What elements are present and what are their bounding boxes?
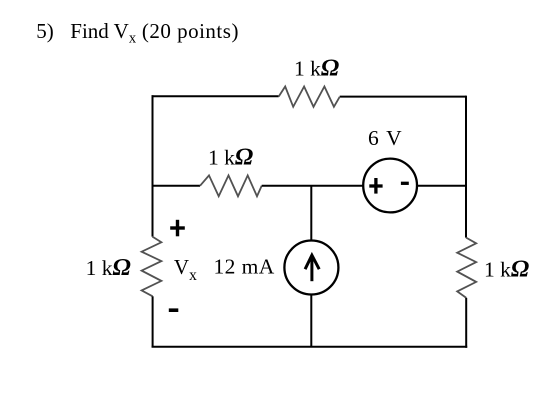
wire: middle horizontal, middle resistor to 6V source [262,185,363,187]
wire: middle vertical from middle node down to current source [310,186,312,241]
svg-text:Find Vx (20 points): Find Vx (20 points) [70,19,239,47]
resistor 1 kOhm (top) [279,87,340,107]
wire: middle horizontal, 6V source to right vertical [417,185,466,187]
wire: right vertical lower segment [465,298,467,348]
svg-text:1 kΩ: 1 kΩ [484,255,529,282]
label: minus sign of Vx polarity [169,308,179,312]
wire: left vertical upper segment [152,95,154,236]
label: plus sign inside 6V source [369,178,382,194]
voltage source 6V [363,159,417,213]
wire: top resistor to top-right corner [340,96,466,98]
svg-text:5): 5) [36,19,54,43]
wire: top-left to top resistor (node top-left corner) [153,95,279,96]
wire: middle vertical from current source to bottom wire [310,295,312,347]
current source 12 mA [284,241,338,295]
title: 5) Find Vx (20 points) [36,19,239,47]
wire: right vertical upper segment [465,96,467,238]
label: minus sign inside 6V source [401,182,409,185]
svg-text:1 kΩ: 1 kΩ [208,143,253,170]
svg-text:1 kΩ: 1 kΩ [294,54,339,81]
resistor 1 kOhm (left, Vx) [142,237,162,297]
resistor 1 kOhm (middle) [200,175,262,196]
svg-text:12 mA: 12 mA [214,255,275,279]
wire: left vertical lower segment [152,296,154,347]
arrow of current source (pointing up) [305,255,319,281]
label: plus sign of Vx polarity [170,220,185,237]
svg-text:6 V: 6 V [368,126,403,150]
resistor 1 kOhm (right) [457,238,476,298]
wire: middle horizontal, left vertical to middle resistor [153,185,201,187]
wire: bottom horizontal [152,346,468,348]
svg-text:1 kΩ: 1 kΩ [86,254,131,281]
